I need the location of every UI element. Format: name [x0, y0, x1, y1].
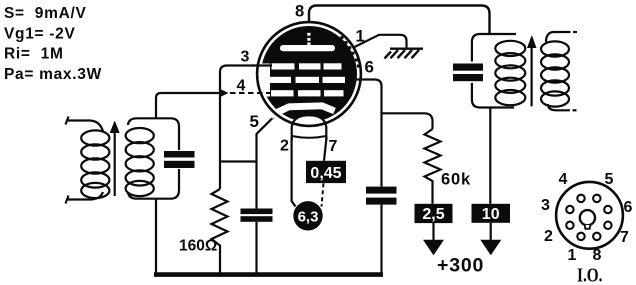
capacitor C1 (tank capacitor): [164, 151, 195, 168]
tube V1 pin 8 internal dashes: [307, 33, 310, 45]
svg-text:+300: +300: [437, 255, 484, 277]
transformer T2 coupling arrow: [527, 35, 537, 106]
tube V1 envelope: [257, 22, 361, 126]
tube parameter annotation: [4, 5, 102, 83]
svg-text:1: 1: [568, 247, 577, 264]
wire branch to 60k: [382, 113, 433, 129]
tube V1 internal shield dots: [340, 36, 360, 67]
voltage badge 2,5: [415, 204, 453, 223]
tube V1 heater dome base arc: [292, 136, 327, 138]
tube V1 grid row 2: [270, 77, 345, 83]
ground: [385, 49, 424, 59]
svg-text:60k: 60k: [441, 171, 471, 189]
svg-text:4: 4: [237, 78, 246, 95]
svg-text:Pa= max.3W: Pa= max.3W: [4, 66, 102, 83]
heater current badge 0,45: [306, 161, 346, 183]
svg-text:7: 7: [620, 229, 629, 246]
svg-text:6,3: 6,3: [298, 209, 319, 226]
wire C2 to bus: [255, 222, 257, 273]
capacitor C3 (screen bypass): [366, 187, 397, 205]
svg-text:8: 8: [593, 247, 602, 264]
wire badge 10 to arrow: [490, 223, 492, 241]
wire C3 to bus: [380, 205, 382, 273]
wire pin 1 to ground: [353, 35, 407, 49]
svg-text:10: 10: [482, 206, 500, 223]
wire pin 8 anode to T2 top rail: [309, 6, 490, 34]
svg-text:S= 9mA/V: S= 9mA/V: [4, 5, 87, 22]
wire badge to supply arrow: [432, 223, 434, 241]
svg-text:160Ω: 160Ω: [179, 238, 217, 255]
svg-text:8: 8: [295, 3, 304, 21]
svg-text:5: 5: [605, 171, 614, 188]
svg-text:6: 6: [624, 199, 633, 216]
capacitor C2 cathode bypass: [241, 209, 273, 222]
resistor 60k: [425, 129, 441, 204]
tube V1 grid row 3: [271, 90, 344, 96]
transformer T2 secondary winding: [541, 32, 577, 110]
wire pin 2 heater lead: [292, 137, 296, 207]
heater supply 6,3: [293, 201, 322, 230]
socket key notch: [585, 225, 591, 229]
tube V1 grid row 1: [272, 63, 342, 69]
svg-text:4: 4: [559, 171, 568, 188]
tube V1 left entry notch: [254, 64, 270, 97]
svg-text:2: 2: [544, 228, 553, 245]
svg-text:2,5: 2,5: [422, 206, 444, 223]
wire pin 3 to grid resistor: [220, 66, 272, 190]
svg-text:7: 7: [329, 138, 338, 155]
svg-text:2: 2: [280, 138, 289, 155]
tube socket I.O. outline: [556, 182, 623, 249]
socket pin holes: [566, 195, 611, 240]
supply arrow right: [480, 240, 501, 256]
transformer T2 primary loop: [472, 34, 525, 108]
svg-text:0,45: 0,45: [310, 165, 341, 182]
socket pin labels: [541, 171, 633, 264]
svg-text:3: 3: [541, 197, 550, 214]
current badge 10: [472, 204, 511, 223]
tube V1 anode bar: [280, 45, 335, 51]
transformer T1 primary winding: [66, 117, 110, 204]
transformer T1 coupling arrow: [110, 121, 120, 197]
ground bus: [154, 272, 383, 277]
transformer T1 secondary winding (tank loop): [126, 118, 179, 198]
pin 4 arrow: [220, 89, 229, 97]
wire pin 5 cathode lead: [257, 116, 275, 209]
resistor 160Ω: [212, 189, 228, 273]
wire pin 6 screen lead down: [355, 80, 382, 187]
tube V1 cathode arc: [271, 106, 335, 116]
svg-text:6: 6: [365, 58, 374, 77]
supply arrow left: [423, 240, 444, 256]
svg-text:5: 5: [250, 112, 259, 131]
wire cathode junction: [220, 160, 256, 162]
wire T1 bottom to ground bus: [155, 199, 157, 273]
svg-text:Ri= 1M: Ri= 1M: [4, 46, 64, 63]
wire grid feed from T1 top to pin 4: [156, 93, 219, 119]
socket center hole: [580, 210, 595, 225]
tube V1 heater dome: [292, 115, 327, 140]
wire pin 3 notch entry: [253, 64, 272, 66]
tube V1 body (black disc): [261, 26, 357, 122]
wire T2 bottom to badge 10: [489, 108, 491, 204]
wire pin 7 below badge (dashed): [322, 183, 324, 206]
capacitor C4 (output tank): [453, 64, 483, 82]
wire pin 4 dashed entry: [230, 92, 271, 94]
wire pin 7 heater lead: [324, 137, 327, 161]
svg-text:Vg1= -2V: Vg1= -2V: [4, 25, 76, 42]
svg-text:I.O.: I.O.: [577, 265, 603, 285]
svg-text:3: 3: [241, 49, 250, 66]
